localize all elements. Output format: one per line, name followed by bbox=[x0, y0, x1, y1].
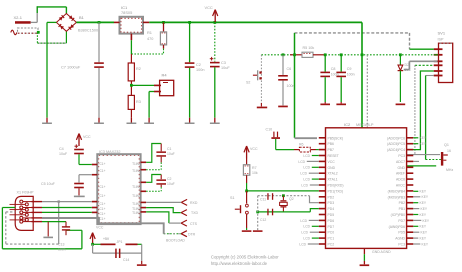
svg-text:100n: 100n bbox=[196, 68, 204, 72]
svg-text:Copyright (c) 2005 Elektronik-: Copyright (c) 2005 Elektronik-Labor bbox=[211, 254, 279, 259]
svg-text:DTR: DTR bbox=[188, 233, 196, 237]
svg-text:C2: C2 bbox=[196, 63, 201, 67]
svg-text:C1+: C1+ bbox=[100, 212, 106, 216]
svg-text:PD7: PD7 bbox=[398, 219, 405, 223]
svg-text:IC2: IC2 bbox=[344, 122, 351, 127]
svg-text:PD1(TXD): PD1(TXD) bbox=[328, 189, 344, 193]
svg-text:100n: 100n bbox=[347, 73, 355, 77]
svg-text:PC3: PC3 bbox=[398, 154, 405, 158]
svg-text:C1+: C1+ bbox=[100, 162, 106, 166]
svg-text:PC3: PC3 bbox=[398, 243, 405, 247]
svg-text:RESET: RESET bbox=[328, 154, 339, 158]
svg-text:LCD: LCD bbox=[301, 183, 308, 187]
svg-text:10uF: 10uF bbox=[221, 66, 230, 70]
svg-text:C6: C6 bbox=[287, 67, 292, 71]
svg-text:PB2: PB2 bbox=[399, 201, 406, 205]
svg-text:PD2: PD2 bbox=[328, 195, 335, 199]
svg-text:VCC: VCC bbox=[205, 5, 213, 10]
svg-text:10uF: 10uF bbox=[167, 182, 175, 186]
svg-text:GND AGND: GND AGND bbox=[372, 250, 391, 254]
svg-text:PD4: PD4 bbox=[328, 207, 335, 211]
svg-text:KEY: KEY bbox=[420, 213, 427, 217]
svg-text:D2: D2 bbox=[405, 63, 410, 67]
svg-text:T1IN: T1IN bbox=[132, 185, 140, 189]
svg-text:C4: C4 bbox=[59, 147, 64, 151]
svg-text:KEY: KEY bbox=[422, 195, 429, 199]
svg-text:C1+: C1+ bbox=[100, 207, 106, 211]
svg-text:PD5: PD5 bbox=[328, 213, 335, 217]
svg-text:(MOSI)PB3: (MOSI)PB3 bbox=[388, 195, 405, 199]
svg-text:PB1: PB1 bbox=[399, 207, 406, 211]
svg-text:LCD: LCD bbox=[298, 160, 305, 164]
svg-text:PC2: PC2 bbox=[328, 243, 335, 247]
svg-text:LCD: LCD bbox=[303, 154, 310, 158]
svg-text:KEY: KEY bbox=[421, 231, 428, 235]
svg-text:C5 10uF: C5 10uF bbox=[41, 182, 56, 186]
svg-text:VCC: VCC bbox=[250, 147, 258, 151]
svg-text:VCC: VCC bbox=[83, 135, 91, 139]
svg-text:JP1: JP1 bbox=[117, 240, 123, 244]
svg-text:R6: R6 bbox=[299, 143, 304, 147]
svg-text:AREF: AREF bbox=[396, 172, 405, 176]
svg-text:470: 470 bbox=[147, 37, 153, 41]
svg-text:T1IN: T1IN bbox=[132, 194, 140, 198]
svg-text:T1IN: T1IN bbox=[132, 202, 140, 206]
svg-text:ADC7: ADC7 bbox=[396, 160, 405, 164]
svg-text:KEY: KEY bbox=[420, 136, 427, 140]
svg-text:PB6: PB6 bbox=[328, 142, 335, 146]
svg-text:MEGA8-P: MEGA8-P bbox=[356, 122, 374, 127]
svg-text:C12: C12 bbox=[260, 218, 266, 222]
svg-text:R3: R3 bbox=[136, 100, 141, 104]
svg-text:PC1: PC1 bbox=[328, 237, 335, 241]
svg-text:(MISO)PB4: (MISO)PB4 bbox=[388, 189, 405, 193]
svg-text:C1+: C1+ bbox=[100, 194, 106, 198]
svg-text:R1: R1 bbox=[147, 30, 152, 35]
svg-text:(ADC0)PC6: (ADC0)PC6 bbox=[387, 136, 405, 140]
svg-text:R4: R4 bbox=[162, 73, 168, 78]
svg-text:XTAL2: XTAL2 bbox=[328, 172, 338, 176]
svg-text:LCD: LCD bbox=[303, 237, 310, 241]
svg-text:KEY: KEY bbox=[421, 207, 428, 211]
svg-text:C1+: C1+ bbox=[100, 185, 106, 189]
svg-text:100n: 100n bbox=[58, 248, 66, 252]
svg-text:R5 10k: R5 10k bbox=[303, 46, 315, 50]
svg-text:100n: 100n bbox=[287, 84, 295, 88]
svg-text:TXD: TXD bbox=[191, 211, 198, 215]
svg-text:PD3: PD3 bbox=[328, 201, 335, 205]
svg-text:LCD: LCD bbox=[299, 242, 306, 246]
svg-text:(ADC4)PC4: (ADC4)PC4 bbox=[387, 148, 405, 152]
svg-text:T1IN: T1IN bbox=[132, 169, 140, 173]
svg-text:(ADC5)PC5: (ADC5)PC5 bbox=[387, 142, 405, 146]
svg-text:PD0(RXD): PD0(RXD) bbox=[328, 184, 344, 188]
svg-text:ADC6: ADC6 bbox=[396, 178, 405, 182]
svg-text:C8: C8 bbox=[331, 67, 336, 71]
svg-text:PB5(SCK): PB5(SCK) bbox=[328, 136, 344, 140]
svg-text:LCD: LCD bbox=[303, 178, 310, 182]
svg-text:Q1: Q1 bbox=[444, 143, 449, 147]
svg-text:Q2: Q2 bbox=[289, 197, 294, 201]
svg-text:KEY: KEY bbox=[420, 190, 427, 194]
svg-text:GND: GND bbox=[328, 166, 336, 170]
svg-text:LCD: LCD bbox=[300, 172, 307, 176]
svg-text:KEY: KEY bbox=[423, 219, 430, 223]
svg-text:LCD: LCD bbox=[300, 219, 307, 223]
svg-text:AVCC: AVCC bbox=[396, 184, 406, 188]
svg-text:CTS: CTS bbox=[190, 222, 198, 226]
svg-text:78S05: 78S05 bbox=[121, 10, 132, 15]
svg-text:LCD: LCD bbox=[301, 231, 308, 235]
svg-text:10k: 10k bbox=[252, 171, 258, 175]
svg-text:R7: R7 bbox=[252, 166, 257, 170]
svg-text:C13: C13 bbox=[58, 243, 64, 247]
svg-text:KEY: KEY bbox=[420, 142, 427, 146]
svg-text:C1: C1 bbox=[167, 147, 172, 151]
svg-text:PB7: PB7 bbox=[328, 148, 335, 152]
svg-text:C3: C3 bbox=[221, 61, 226, 65]
svg-text:T1IN: T1IN bbox=[132, 162, 140, 166]
svg-text:VCC: VCC bbox=[96, 226, 104, 230]
svg-text:PC0: PC0 bbox=[328, 231, 335, 235]
svg-text:XTAL1: XTAL1 bbox=[328, 178, 338, 182]
svg-text:X1 F09HP: X1 F09HP bbox=[17, 191, 35, 195]
svg-text:(AIN0)PD6: (AIN0)PD6 bbox=[389, 225, 406, 229]
svg-text:(ICP)PB0: (ICP)PB0 bbox=[391, 213, 405, 217]
svg-text:X2-1: X2-1 bbox=[14, 15, 23, 20]
svg-text:AGND: AGND bbox=[395, 237, 405, 241]
svg-text:ISP: ISP bbox=[438, 38, 444, 42]
svg-text:+5V: +5V bbox=[103, 237, 110, 241]
svg-text:10uF: 10uF bbox=[167, 152, 175, 156]
svg-text:C14: C14 bbox=[123, 258, 129, 262]
svg-text:C1+: C1+ bbox=[100, 217, 106, 221]
svg-text:GND: GND bbox=[397, 166, 405, 170]
svg-text:C9: C9 bbox=[347, 67, 352, 71]
svg-text:S1: S1 bbox=[230, 196, 235, 200]
svg-text:C11: C11 bbox=[260, 198, 266, 202]
svg-text:C1+: C1+ bbox=[100, 202, 106, 206]
svg-text:PD5: PD5 bbox=[398, 231, 405, 235]
svg-text:C1+: C1+ bbox=[100, 169, 106, 173]
svg-text:B1: B1 bbox=[79, 15, 85, 20]
svg-text:C2: C2 bbox=[167, 177, 172, 181]
svg-text:LCD: LCD bbox=[303, 225, 310, 229]
svg-text:RXD: RXD bbox=[190, 201, 198, 205]
svg-text:R2: R2 bbox=[136, 67, 141, 71]
svg-text:KEY: KEY bbox=[422, 242, 429, 246]
svg-text:BOOTLOAD: BOOTLOAD bbox=[166, 239, 185, 243]
svg-text:B380C1500: B380C1500 bbox=[78, 29, 98, 33]
svg-text:VCC: VCC bbox=[328, 160, 336, 164]
svg-text:C7 1000uF: C7 1000uF bbox=[61, 65, 81, 70]
svg-text:http.//www.elektronik-labor.de: http.//www.elektronik-labor.de bbox=[211, 261, 268, 266]
svg-text:KEY: KEY bbox=[420, 201, 427, 205]
svg-text:16: 16 bbox=[447, 149, 451, 153]
svg-text:PD6: PD6 bbox=[328, 219, 335, 223]
svg-text:KEY: KEY bbox=[420, 237, 427, 241]
svg-text:SV1: SV1 bbox=[438, 31, 446, 36]
svg-text:C10: C10 bbox=[266, 128, 273, 132]
svg-text:S2: S2 bbox=[246, 81, 250, 85]
svg-text:PD7: PD7 bbox=[328, 225, 335, 229]
svg-text:LCD: LCD bbox=[303, 166, 310, 170]
svg-text:10uF: 10uF bbox=[59, 152, 68, 156]
svg-text:T1IN: T1IN bbox=[132, 211, 140, 215]
svg-text:KEY: KEY bbox=[420, 225, 427, 229]
svg-text:MHz: MHz bbox=[446, 168, 453, 172]
